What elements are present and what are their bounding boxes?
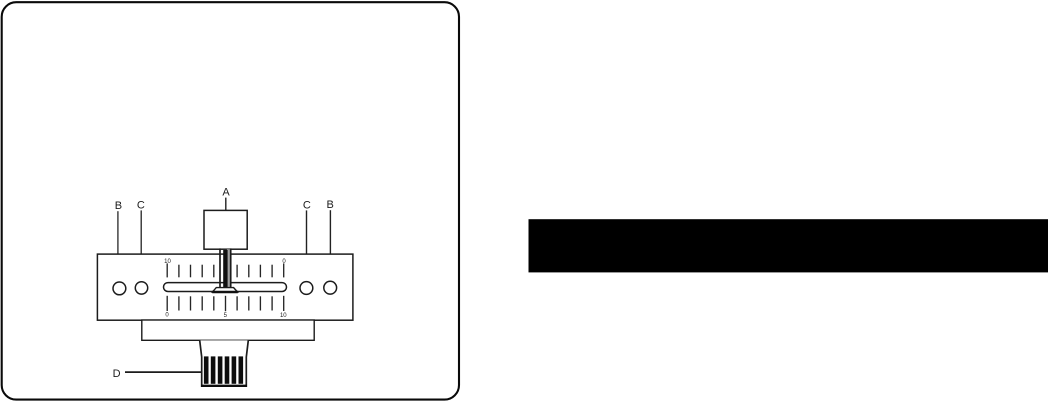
lower plate (142, 320, 314, 340)
hole B right (324, 281, 337, 294)
black redaction bar (529, 219, 1048, 272)
pointer foot (212, 288, 238, 293)
leader line B right (329, 210, 331, 281)
faceplate body (97, 254, 353, 320)
svg-text:A: A (222, 186, 230, 198)
knob hatch stripes (204, 356, 243, 383)
pointer stem (220, 248, 231, 288)
knob box A (204, 210, 247, 249)
svg-text:B: B (327, 199, 334, 211)
slider bar (164, 283, 287, 292)
leader line C left (140, 210, 142, 281)
svg-text:10: 10 (164, 259, 171, 265)
svg-text:C: C (137, 199, 145, 211)
hole C right (300, 282, 313, 295)
rounded border frame (2, 2, 459, 399)
bottom scale ticks (167, 296, 284, 311)
knob bottom edge (201, 385, 247, 387)
knob neck and shaft outline (200, 340, 249, 386)
svg-text:D: D (113, 368, 121, 380)
hole C left (135, 282, 147, 294)
hole B left (113, 282, 126, 295)
leader line D (125, 371, 203, 373)
svg-text:C: C (303, 199, 311, 211)
top scale ticks (167, 263, 284, 277)
leader line C right (306, 210, 308, 281)
leader line A (225, 198, 227, 211)
svg-text:10: 10 (280, 313, 287, 319)
leader line B left (117, 211, 119, 282)
svg-text:B: B (115, 200, 122, 212)
